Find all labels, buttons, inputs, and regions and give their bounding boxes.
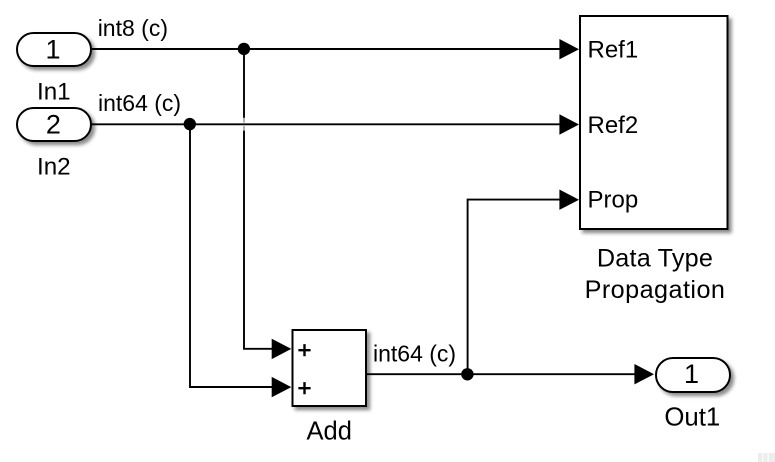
arrowhead into Prop	[559, 190, 579, 210]
Add plus sign 2	[298, 382, 310, 394]
svg-text:int64 (c): int64 (c)	[98, 90, 181, 116]
Data Type Propagation block	[580, 16, 728, 229]
arrowhead into Ref1	[559, 39, 579, 59]
svg-text:Ref2: Ref2	[588, 112, 639, 139]
svg-text:Prop: Prop	[588, 187, 639, 214]
junction node on In1 wire	[238, 43, 250, 55]
svg-text:int8 (c): int8 (c)	[98, 15, 168, 41]
outport Out1 block	[656, 358, 730, 392]
junction node on Add output wire	[461, 368, 473, 380]
svg-text:Data Type: Data Type	[597, 244, 713, 272]
wire branch from In1 wire down to Add input 1 (gap at crossing)	[243, 49, 245, 118]
inport In2 block	[17, 108, 91, 141]
junction node on In2 wire	[184, 118, 196, 130]
svg-text:Add: Add	[307, 418, 352, 446]
Add block	[293, 330, 367, 406]
arrowhead into Out1	[634, 364, 654, 384]
svg-text:1: 1	[45, 35, 60, 65]
svg-text:In2: In2	[37, 154, 71, 181]
inport In1 block	[17, 33, 91, 66]
Add plus sign 1	[298, 344, 310, 356]
svg-text:In1: In1	[37, 79, 71, 106]
svg-text:1: 1	[684, 359, 699, 389]
wire In2 to Ref2	[92, 123, 560, 125]
svg-text:Propagation: Propagation	[585, 276, 726, 304]
wire In1 to Ref1	[92, 48, 560, 50]
wire Add output to Out1	[367, 373, 636, 375]
svg-text:Out1: Out1	[664, 404, 720, 432]
svg-text:Ref1: Ref1	[588, 37, 639, 64]
watermark bars bottom right	[758, 453, 775, 462]
wire branch from Add output up to Prop	[468, 200, 560, 375]
wire branch from In2 wire down to Add input 2	[190, 124, 272, 387]
svg-text:int64 (c): int64 (c)	[373, 340, 456, 366]
arrowhead into Add input 1	[272, 339, 292, 359]
arrowhead into Add input 2	[272, 377, 292, 397]
svg-text:2: 2	[46, 110, 61, 140]
arrowhead into Ref2	[559, 114, 579, 134]
